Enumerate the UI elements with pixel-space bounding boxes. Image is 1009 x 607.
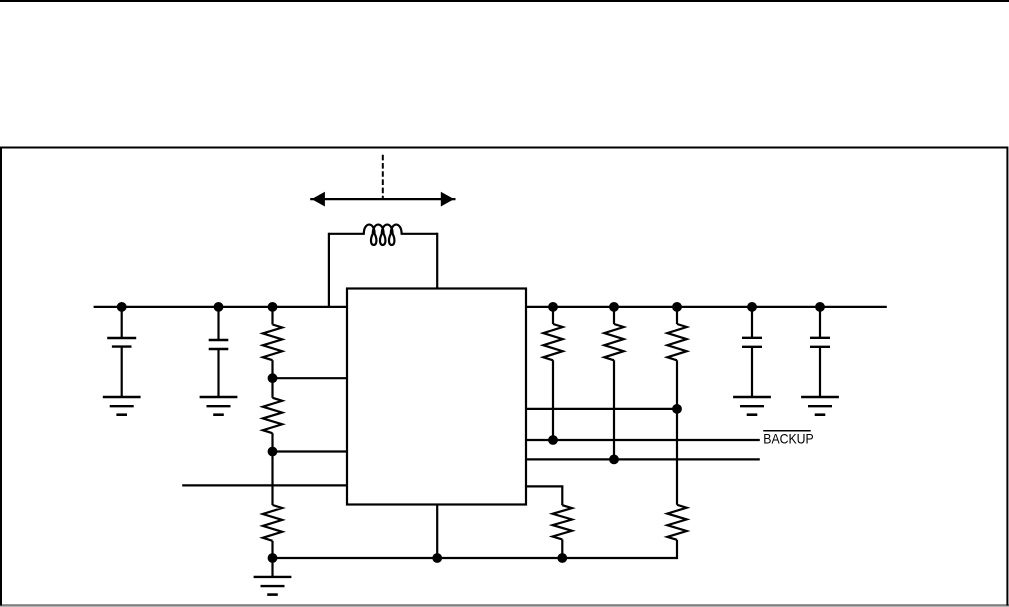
node R5-bus junction [609, 302, 619, 312]
node A: R1/R2 divider tap [268, 373, 278, 383]
resistor R3 [263, 505, 282, 541]
capacitor C1 [121, 307, 123, 338]
inductor L1 [364, 225, 402, 245]
wire node A to IC left pin [273, 377, 348, 379]
wire ground bus [273, 557, 678, 559]
node C4-bus junction [815, 302, 825, 312]
wire node B down to R3 [271, 452, 273, 506]
node B: R2/R3 divider tap [268, 447, 278, 457]
wire inductor right leg down to IC top pin [436, 233, 438, 289]
ground under R3 [254, 576, 292, 578]
wire IC pin BACKUP net [526, 439, 760, 441]
wire IC pin lower signal net [526, 458, 760, 460]
resistor R4 [552, 307, 554, 324]
node C2-bus junction [214, 302, 224, 312]
dashed adjustment line [382, 155, 384, 199]
capacitor C2 [217, 307, 219, 340]
bottom gray page rule [0, 604, 1009, 606]
resistor R2 [271, 378, 273, 398]
op-amp / IC U1 [347, 289, 526, 505]
node R6 to IC wire junction [672, 404, 682, 414]
wire VCC bus right segment [526, 306, 887, 308]
node IC bottom - ground bus junction [432, 553, 442, 563]
wire open pin to IC left [182, 484, 347, 486]
wire node B to IC left pin [273, 450, 348, 452]
capacitor C3 [751, 307, 753, 338]
resistor R5 [613, 307, 615, 324]
node C1-bus junction [117, 302, 127, 312]
resistor R8 [553, 505, 572, 539]
wire VCC bus left segment [94, 306, 347, 308]
wire R6 column down to R7 [676, 409, 678, 505]
wire R7 to ground bus corner [676, 540, 678, 559]
figure border frame [1, 148, 1007, 606]
resistor R7 [667, 505, 686, 540]
node R6-bus junction [672, 302, 682, 312]
node R5 to lower signal wire [609, 455, 619, 465]
node R4 to BACKUP wire [548, 435, 558, 445]
wire IC pin to R8 [526, 486, 562, 505]
svg-text:BACKUP: BACKUP [763, 431, 813, 447]
ground under C3 [733, 396, 771, 398]
node R8 - ground bus junction [557, 553, 567, 563]
top page rule [0, 0, 1009, 2]
resistor R6 [676, 307, 678, 324]
node R4-bus junction [548, 302, 558, 312]
node R1-bus junction [268, 302, 278, 312]
capacitor C4 [819, 307, 821, 338]
wire inductor left lead [329, 233, 365, 235]
double-headed arrow [310, 198, 455, 200]
wire IC bottom pin to ground bus [436, 505, 438, 559]
wire inductor right lead [401, 233, 438, 235]
ground under C1 [103, 396, 141, 398]
wire inductor left leg down to VCC bus [328, 233, 330, 307]
node C: R3 to ground bus [268, 553, 278, 563]
ground under C2 [200, 396, 238, 398]
ground under C4 [801, 396, 839, 398]
node C3-bus junction [747, 302, 757, 312]
wire IC pin to R6 column [526, 408, 677, 410]
resistor R1 [271, 307, 273, 325]
